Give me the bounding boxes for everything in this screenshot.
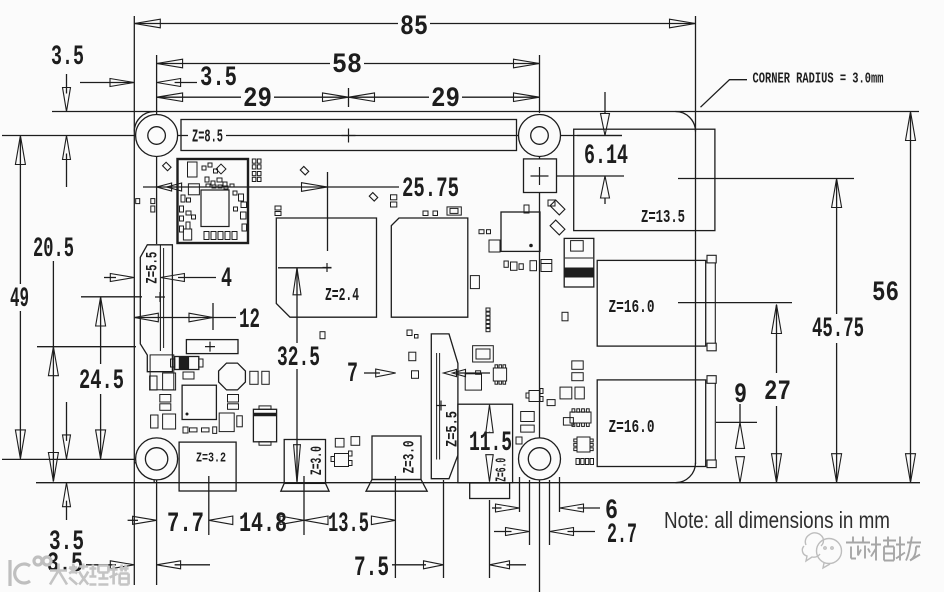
small part left of polyfuse bbox=[548, 200, 555, 206]
polyfuse F1 bbox=[564, 238, 594, 287]
SoC U1 bbox=[276, 218, 376, 317]
corner radius note leader bbox=[701, 80, 748, 108]
usb jack 2 bbox=[597, 380, 706, 467]
capacitor C1 bbox=[253, 409, 276, 442]
svg-text:49: 49 bbox=[10, 284, 29, 315]
extension line x=157 bottom bbox=[156, 479, 158, 585]
wifi chip bbox=[201, 190, 229, 227]
RUN header bbox=[186, 340, 238, 354]
hdmi connector bbox=[372, 436, 421, 480]
svg-text:CORNER RADIUS = 3.0mm: CORNER RADIUS = 3.0mm bbox=[753, 71, 884, 88]
wire right edge bbox=[695, 16, 697, 464]
small parts mid-board bbox=[409, 352, 416, 361]
GPIO center mark bbox=[342, 129, 356, 143]
svg-text:7.7: 7.7 bbox=[167, 509, 204, 540]
ethernet center line bbox=[678, 178, 854, 180]
PMIC chip bbox=[182, 385, 216, 419]
svg-text:Z=16.0: Z=16.0 bbox=[609, 298, 655, 318]
ethernet jack bbox=[574, 129, 715, 230]
svg-text:3.5: 3.5 bbox=[47, 549, 83, 580]
svg-text:20.5: 20.5 bbox=[33, 234, 74, 265]
SD card socket bbox=[179, 442, 236, 491]
mounting hole top-right bbox=[519, 115, 561, 157]
dimension 12 bbox=[134, 317, 213, 319]
crystal X1 bbox=[447, 207, 461, 215]
svg-text:6.14: 6.14 bbox=[584, 141, 628, 172]
hole row line bottom-left bbox=[2, 458, 136, 460]
svg-text:2.7: 2.7 bbox=[607, 520, 637, 551]
GPIO header J8 bbox=[181, 120, 517, 151]
extension line SD col bbox=[208, 476, 210, 535]
dimension 6.14 bbox=[577, 135, 622, 137]
dimension 13.5 bbox=[304, 516, 328, 525]
tick x=348.5 bbox=[348, 88, 350, 107]
dimension 25.75 bbox=[143, 186, 399, 188]
mounting hole top-left bbox=[136, 115, 178, 157]
dimension 45.75 bbox=[836, 180, 838, 314]
DSI connector J3 bbox=[140, 245, 172, 372]
hole row line top bbox=[2, 135, 188, 137]
dimension 29 right bbox=[349, 96, 430, 98]
svg-text:24.5: 24.5 bbox=[79, 366, 124, 397]
dimension 29 left bbox=[157, 96, 241, 98]
svg-text:Z=5.5: Z=5.5 bbox=[443, 411, 461, 447]
svg-text:56: 56 bbox=[872, 278, 899, 309]
dimension 11.5 bbox=[486, 405, 493, 433]
svg-text:Z=5.5: Z=5.5 bbox=[143, 252, 161, 284]
svg-text:7: 7 bbox=[347, 359, 358, 390]
svg-text:58: 58 bbox=[332, 50, 362, 81]
small parts left edge bbox=[136, 199, 140, 204]
diamond part b bbox=[300, 166, 308, 174]
small parts near audio bbox=[547, 400, 555, 406]
dimension 4 bbox=[104, 277, 116, 279]
watermark left logo bbox=[10, 557, 51, 586]
extension line x=540 bottom bbox=[539, 479, 541, 592]
mounting hole bottom-right bbox=[519, 438, 561, 480]
dimension 49 bbox=[19, 138, 21, 284]
SOT23 Q1 bbox=[529, 391, 540, 402]
svg-text:25.75: 25.75 bbox=[402, 174, 459, 205]
corner arc bottom-right bbox=[676, 463, 696, 483]
svg-text:Z=8.5: Z=8.5 bbox=[192, 128, 223, 148]
wifi module bbox=[178, 159, 249, 243]
watermark left text bbox=[50, 564, 129, 585]
tiny pair below SoC bbox=[407, 330, 412, 336]
svg-text:85: 85 bbox=[400, 12, 428, 43]
caps row below hub chip bbox=[504, 261, 508, 267]
mounting hole bottom-left bbox=[136, 438, 178, 480]
dimension 58 bbox=[157, 63, 330, 65]
PoE header bbox=[524, 159, 557, 193]
resistor row bbox=[576, 459, 579, 465]
dimension 56 bbox=[910, 113, 912, 481]
dimension 6 bbox=[492, 507, 502, 509]
IC with pins U4 bbox=[493, 368, 506, 381]
diamond parts near PoE bbox=[550, 200, 565, 215]
diamond part a bbox=[163, 162, 171, 170]
wire left edge + extensions bbox=[133, 16, 135, 585]
dimension 3.5 top row bbox=[80, 82, 134, 84]
svg-text:32.5: 32.5 bbox=[277, 343, 320, 374]
svg-text:13.5: 13.5 bbox=[328, 509, 369, 540]
watermark right logo bbox=[802, 533, 841, 568]
svg-text:3.5: 3.5 bbox=[51, 42, 84, 73]
svg-text:Z=3.2: Z=3.2 bbox=[196, 452, 226, 467]
extension line x=157 top bbox=[156, 55, 158, 127]
diamond part c bbox=[369, 193, 377, 201]
svg-text:Z=6.0: Z=6.0 bbox=[493, 458, 510, 482]
extension lines usb pad cols bbox=[519, 477, 521, 512]
wifi small parts bbox=[188, 162, 198, 177]
svg-text:Z=16.0: Z=16.0 bbox=[609, 418, 655, 438]
inductor L1 bbox=[219, 363, 246, 390]
SoC center row line bbox=[278, 267, 332, 269]
wire bottom edge + extensions bbox=[36, 482, 920, 484]
svg-text:3.5: 3.5 bbox=[200, 63, 237, 94]
hub chip U3 bbox=[501, 212, 540, 251]
watermark right text bbox=[846, 537, 921, 561]
extension line x=540 top bbox=[539, 55, 541, 113]
extension line csi col bbox=[443, 480, 445, 578]
extension line hdmi col bbox=[394, 476, 396, 578]
svg-text:7.5: 7.5 bbox=[354, 553, 389, 584]
crystal area right of CSI bbox=[473, 346, 494, 362]
corner arc top-right bbox=[676, 112, 696, 132]
SOIC U5 bbox=[570, 412, 591, 423]
svg-text:45.75: 45.75 bbox=[812, 314, 864, 345]
extension line micro-usb col bbox=[303, 476, 305, 535]
wire top edge + extensions bbox=[52, 111, 919, 113]
small parts cluster PMIC area bbox=[150, 376, 157, 390]
extension line SoC column bbox=[327, 172, 329, 251]
small parts left of usb1 bbox=[562, 312, 568, 321]
svg-text:Z=13.5: Z=13.5 bbox=[641, 208, 685, 228]
svg-text:4: 4 bbox=[221, 264, 232, 295]
svg-text:27: 27 bbox=[764, 377, 791, 408]
reference line y=346.7 bbox=[37, 346, 136, 348]
tick x=213 bbox=[212, 303, 214, 330]
small part below PoE bbox=[524, 205, 529, 213]
mid reference line y=296.8 bbox=[81, 296, 142, 298]
svg-text:29: 29 bbox=[243, 84, 272, 115]
svg-text:29: 29 bbox=[431, 84, 460, 115]
IC U6 bbox=[577, 437, 590, 452]
dimension 85 bbox=[134, 23, 398, 25]
small parts right column bbox=[470, 276, 479, 289]
usb1 center line bbox=[678, 302, 792, 304]
svg-text:Z=2.4: Z=2.4 bbox=[325, 286, 359, 306]
corner arc bottom-left bbox=[134, 463, 154, 483]
micro usb power bbox=[284, 440, 325, 484]
dimension 24.5 bbox=[100, 297, 102, 364]
dimension 7.7 bbox=[128, 519, 138, 521]
svg-text:Z=3.0: Z=3.0 bbox=[308, 446, 326, 475]
small parts above SoC bbox=[252, 159, 256, 163]
svg-text:12: 12 bbox=[239, 305, 260, 336]
corner arc top-left bbox=[134, 112, 154, 132]
dimension 27 bbox=[776, 305, 778, 373]
SOT23 Q2 bbox=[335, 454, 349, 467]
audio jack bbox=[458, 404, 513, 483]
small parts right of wifi bbox=[391, 195, 397, 200]
usb jack 1 bbox=[597, 260, 706, 346]
svg-text:Z=3.0: Z=3.0 bbox=[401, 441, 419, 474]
svg-text:Note: all dimensions in mm: Note: all dimensions in mm bbox=[664, 507, 890, 533]
tantalum cap C2 bbox=[175, 357, 199, 370]
LAN chip U2 bbox=[391, 218, 468, 317]
dimension 2.7 bbox=[494, 531, 512, 533]
usb2 center line bbox=[716, 421, 757, 423]
CSI connector J4 bbox=[431, 334, 458, 479]
extension line audio col bbox=[489, 500, 491, 578]
